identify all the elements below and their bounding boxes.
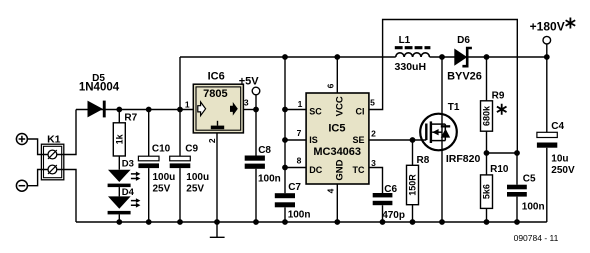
- resistor R10: [481, 175, 493, 209]
- svg-text:C6: C6: [384, 184, 397, 195]
- node +180V terminal: [543, 36, 551, 44]
- ground: [210, 222, 225, 237]
- wire R8 branch: [412, 140, 414, 222]
- wire IC5 left riser and C7 branch: [284, 57, 286, 222]
- wire K1 bottom to ground rail: [57, 170, 76, 223]
- node +5V terminal: [252, 87, 260, 95]
- op-amp U1 controller IC5 box: [306, 93, 369, 184]
- node plus terminal: [16, 134, 27, 145]
- svg-text:100n: 100n: [288, 210, 311, 221]
- svg-text:D3: D3: [122, 159, 134, 170]
- svg-text:10u: 10u: [551, 154, 568, 165]
- wire D4 to ground rail: [118, 214, 120, 222]
- wire C4 branch: [546, 57, 548, 222]
- svg-text:680k: 680k: [482, 105, 492, 126]
- capacitor C10: [138, 156, 159, 168]
- svg-text:+5V: +5V: [239, 75, 260, 87]
- capacitor C9: [170, 156, 191, 168]
- node rail IC6 gnd: [214, 219, 220, 225]
- wire minus to K1: [27, 170, 48, 186]
- svg-text:5: 5: [370, 98, 375, 108]
- svg-text:4: 4: [325, 188, 335, 193]
- inductor L1: [395, 48, 431, 57]
- wire IC5 GND stub: [336, 184, 338, 222]
- wire R7 branch: [118, 110, 120, 123]
- node +180V rail: [544, 54, 550, 60]
- svg-text:6: 6: [325, 83, 335, 88]
- svg-text:IC6: IC6: [208, 70, 225, 82]
- node feedback R9-R10: [484, 150, 490, 156]
- svg-text:T1: T1: [448, 102, 460, 113]
- connector K1: [41, 144, 63, 180]
- svg-text:1: 1: [298, 99, 303, 109]
- svg-text:1: 1: [185, 100, 190, 110]
- LED D4: [108, 196, 141, 214]
- svg-text:1k: 1k: [115, 133, 125, 144]
- svg-text:7805: 7805: [203, 88, 227, 100]
- diode D5: [88, 101, 106, 118]
- resistor R8: [407, 165, 419, 204]
- wire R9 branch: [486, 57, 488, 153]
- wire C10 branch: [148, 110, 150, 223]
- node R8 top: [410, 137, 416, 143]
- svg-text:C9: C9: [185, 144, 198, 155]
- svg-text:3: 3: [371, 158, 376, 168]
- wire plus to K1: [27, 139, 48, 155]
- svg-text:2: 2: [371, 129, 376, 139]
- regulator IC6: [193, 84, 243, 133]
- svg-text:IC5: IC5: [328, 123, 345, 135]
- wire C9 branch: [179, 110, 181, 223]
- resistor R7: [113, 123, 125, 156]
- wire IC5 pin5 feedback loop: [369, 20, 517, 154]
- svg-text:D6: D6: [457, 35, 470, 46]
- svg-text:100u: 100u: [186, 172, 209, 183]
- wire main input: [76, 109, 193, 111]
- capacitor C7: [275, 193, 295, 207]
- node L1-D6-drain: [439, 54, 445, 60]
- asterisk R9: [497, 104, 507, 115]
- node rail C9: [177, 219, 183, 225]
- resistor R9: [481, 101, 493, 131]
- capacitor C8: [245, 156, 265, 169]
- node VCC rail: [334, 54, 340, 60]
- svg-text:R9: R9: [492, 91, 505, 102]
- wire D3 to D4: [118, 187, 120, 196]
- node rail C5: [514, 219, 520, 225]
- wire +180V to rail: [546, 44, 548, 57]
- svg-text:BYV26: BYV26: [447, 71, 482, 83]
- svg-text:100n: 100n: [258, 174, 281, 185]
- node rail C7: [282, 219, 288, 225]
- svg-text:R10: R10: [490, 164, 509, 175]
- svg-text:3: 3: [244, 98, 249, 108]
- node rail C10: [146, 219, 152, 225]
- wire IC5 pin8 stub: [285, 167, 306, 169]
- svg-text:1N4004: 1N4004: [79, 82, 120, 94]
- svg-text:7: 7: [297, 128, 302, 138]
- svg-text:DC: DC: [309, 165, 322, 175]
- wire T1 drain-source vertical: [441, 57, 443, 222]
- svg-text:MC34063: MC34063: [313, 146, 361, 158]
- node C10 top: [146, 107, 152, 113]
- capacitor C6: [373, 193, 393, 205]
- svg-text:100n: 100n: [522, 201, 545, 212]
- svg-text:SC: SC: [309, 106, 322, 116]
- svg-text:C4: C4: [551, 121, 564, 132]
- wire C5 branch: [516, 153, 518, 222]
- svg-text:IS: IS: [309, 135, 318, 145]
- node rail R8: [410, 219, 416, 225]
- wire ground rail: [76, 221, 547, 223]
- svg-text:090784 - 11: 090784 - 11: [514, 233, 559, 243]
- svg-text:+180V: +180V: [530, 20, 565, 34]
- wire R9 R10 junction link: [487, 152, 518, 154]
- svg-text:5k6: 5k6: [482, 184, 492, 199]
- svg-text:R7: R7: [124, 113, 137, 124]
- svg-text:100u: 100u: [153, 172, 176, 183]
- wire +5V drop and C8 branch: [255, 95, 257, 222]
- node pin8: [282, 165, 288, 171]
- capacitor C5: [507, 185, 527, 197]
- wire IC5 pin1 stub: [285, 109, 306, 111]
- node D5-R7: [116, 107, 122, 113]
- svg-text:25V: 25V: [153, 183, 171, 194]
- svg-text:8: 8: [297, 156, 302, 166]
- svg-text:SE: SE: [352, 135, 364, 145]
- svg-text:470p: 470p: [382, 210, 405, 221]
- node rail R10: [484, 219, 490, 225]
- node D6-R9: [484, 54, 490, 60]
- svg-text:D4: D4: [122, 187, 135, 198]
- asterisk +180V: [566, 18, 576, 29]
- svg-text:CI: CI: [356, 106, 365, 116]
- wire K1 top to main node: [57, 110, 76, 155]
- wire IC5 pin7 stub: [285, 139, 306, 141]
- wire IC5 pin3 to C6: [369, 168, 383, 223]
- svg-text:TC: TC: [353, 165, 365, 175]
- node rail D4: [116, 219, 122, 225]
- svg-text:IRF820: IRF820: [446, 153, 481, 165]
- svg-text:C8: C8: [258, 145, 271, 156]
- wire boost rail: [180, 56, 547, 58]
- node pin7: [282, 137, 288, 143]
- node feedback C5: [514, 150, 520, 156]
- node rail C8: [253, 219, 259, 225]
- svg-text:2: 2: [207, 138, 217, 143]
- svg-text:R8: R8: [417, 155, 430, 166]
- capacitor C4: [537, 132, 557, 147]
- node rail IC5 gnd: [334, 219, 340, 225]
- svg-text:VCC: VCC: [335, 96, 346, 116]
- svg-text:C5: C5: [523, 174, 536, 185]
- wire R7 to D3: [118, 156, 120, 170]
- wire IC6 pin2 to ground rail: [216, 133, 218, 222]
- svg-text:150R: 150R: [408, 174, 418, 196]
- svg-text:C10: C10: [152, 144, 171, 155]
- node +5V: [253, 107, 259, 113]
- LED D3: [108, 170, 141, 187]
- svg-text:K1: K1: [47, 133, 61, 145]
- node rail C6: [380, 219, 386, 225]
- diode D6: [454, 48, 472, 66]
- node pin1: [282, 107, 288, 113]
- wire boost riser: [179, 57, 181, 110]
- svg-text:330uH: 330uH: [395, 61, 427, 73]
- svg-text:25V: 25V: [186, 183, 204, 194]
- node rail T1 source: [439, 219, 445, 225]
- wire IC5 pin2 to gate: [369, 139, 426, 141]
- transistor Q1 MOSFET T1: [420, 114, 457, 151]
- wire IC5 VCC stub: [336, 57, 338, 93]
- wire IC6 pin3: [243, 109, 256, 111]
- node minus terminal: [16, 180, 27, 191]
- svg-text:GND: GND: [335, 159, 346, 180]
- node C9 riser: [177, 107, 183, 113]
- wire R10 branch: [486, 153, 488, 222]
- svg-text:L1: L1: [399, 35, 411, 46]
- svg-text:250V: 250V: [551, 165, 575, 176]
- node boost-riser top: [282, 54, 288, 60]
- svg-text:C7: C7: [288, 182, 301, 193]
